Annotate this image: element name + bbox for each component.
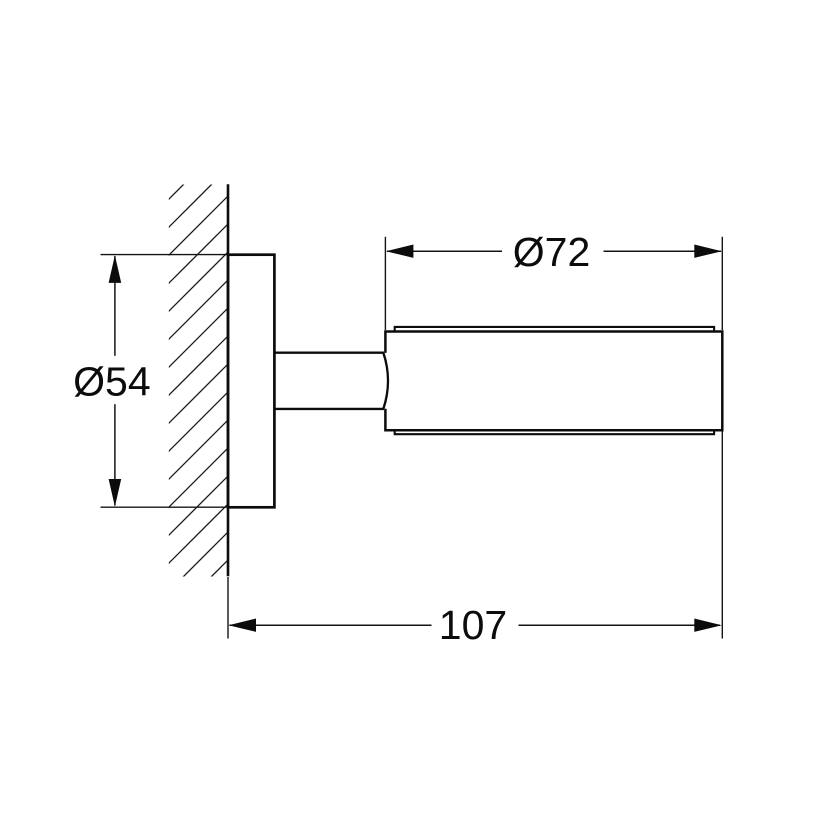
dimension line 107 right segment [519, 624, 721, 626]
stem fillet arc [383, 353, 388, 409]
arrowhead 107 left [229, 619, 257, 632]
extension line left for 107 below wall [227, 577, 229, 639]
arrowhead dia54 up [109, 255, 122, 283]
extension line bottom of dia54 [101, 506, 227, 508]
holder body outline [385, 332, 722, 431]
dimension line 107 left segment [230, 624, 432, 626]
holder top lip [395, 327, 714, 331]
wall hatching [140, 80, 260, 676]
holder bottom lip [395, 431, 714, 434]
stem top line [275, 352, 384, 354]
dimension line dia72 left segment [387, 250, 502, 252]
dimension line dia54 upper segment [114, 256, 116, 356]
extension line right of dia72 upper [721, 237, 723, 330]
arrowhead dia72 left [386, 245, 414, 258]
svg-text:Ø54: Ø54 [73, 358, 151, 404]
svg-text:Ø72: Ø72 [513, 229, 591, 275]
arrowhead dia54 down [109, 479, 122, 507]
dimension line dia54 lower segment [114, 404, 116, 505]
arrowhead 107 right [694, 619, 722, 632]
extension line left of dia72 [384, 237, 386, 330]
extension line top of dia54 [101, 254, 227, 256]
extension line right lower for 107 [721, 432, 723, 639]
arrowhead dia72 right [694, 245, 722, 258]
wall surface line [227, 184, 230, 576]
dimension line dia72 right segment [604, 250, 722, 252]
svg-text:107: 107 [439, 602, 507, 648]
stem bottom line [275, 408, 384, 410]
mounting plate [228, 255, 274, 508]
